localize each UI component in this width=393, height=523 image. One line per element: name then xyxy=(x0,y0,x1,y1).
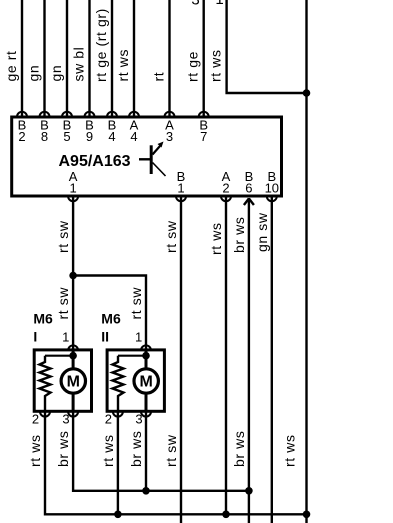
svg-text:M: M xyxy=(140,374,153,391)
svg-text:1: 1 xyxy=(62,330,69,345)
svg-text:rt ws: rt ws xyxy=(27,434,43,467)
svg-text:A95/A163: A95/A163 xyxy=(59,153,131,170)
svg-text:8: 8 xyxy=(41,129,48,144)
svg-text:M6: M6 xyxy=(33,311,53,327)
svg-text:rt ws: rt ws xyxy=(100,434,116,467)
svg-text:1: 1 xyxy=(215,0,223,8)
svg-text:rt sw: rt sw xyxy=(128,287,144,320)
svg-text:br ws: br ws xyxy=(55,431,71,467)
svg-text:3: 3 xyxy=(191,0,199,9)
svg-text:7: 7 xyxy=(200,129,207,144)
svg-text:gn sw: gn sw xyxy=(254,212,270,252)
svg-text:ge rt: ge rt xyxy=(3,50,19,81)
svg-text:2: 2 xyxy=(222,180,229,195)
svg-text:br ws: br ws xyxy=(231,431,247,467)
svg-text:rt ws: rt ws xyxy=(282,434,298,467)
svg-text:1: 1 xyxy=(177,180,184,195)
svg-text:I: I xyxy=(33,329,37,345)
svg-text:5: 5 xyxy=(63,129,70,144)
svg-text:M: M xyxy=(67,374,80,391)
svg-text:3: 3 xyxy=(62,412,69,427)
svg-text:rt sw: rt sw xyxy=(163,220,179,253)
svg-text:3: 3 xyxy=(135,412,142,427)
svg-text:6: 6 xyxy=(245,180,252,195)
svg-text:10: 10 xyxy=(265,180,279,195)
svg-text:4: 4 xyxy=(130,129,137,144)
svg-text:rt sw: rt sw xyxy=(163,434,179,467)
svg-text:rt: rt xyxy=(151,72,167,82)
svg-text:M6: M6 xyxy=(101,311,121,327)
svg-text:rt ge: rt ge xyxy=(185,51,201,82)
svg-text:rt ge (rt gr): rt ge (rt gr) xyxy=(93,8,109,82)
svg-text:sw bl: sw bl xyxy=(71,47,87,82)
svg-text:gn: gn xyxy=(48,65,64,82)
svg-text:br ws: br ws xyxy=(231,217,247,253)
svg-text:rt ws: rt ws xyxy=(208,49,224,82)
svg-text:9: 9 xyxy=(86,129,93,144)
svg-text:2: 2 xyxy=(18,129,25,144)
svg-text:br ws: br ws xyxy=(128,431,144,467)
svg-text:II: II xyxy=(101,329,109,345)
svg-text:rt ws: rt ws xyxy=(208,222,224,255)
svg-text:1: 1 xyxy=(69,180,76,195)
svg-text:2: 2 xyxy=(32,412,39,427)
svg-text:4: 4 xyxy=(108,129,115,144)
svg-text:rt sw: rt sw xyxy=(55,287,71,320)
svg-text:gn: gn xyxy=(26,65,42,82)
svg-text:2: 2 xyxy=(105,412,112,427)
svg-text:3: 3 xyxy=(166,129,173,144)
svg-text:1: 1 xyxy=(135,330,142,345)
svg-text:rt ws: rt ws xyxy=(115,49,131,82)
svg-text:rt sw: rt sw xyxy=(55,220,71,253)
